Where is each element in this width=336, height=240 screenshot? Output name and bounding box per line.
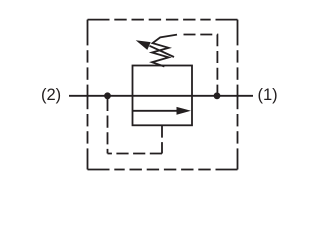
node: right junction dot [214, 92, 221, 99]
pilot line: spring cap to port (1) node (dashed) [184, 35, 218, 93]
flow path arrow inside valve [133, 107, 191, 115]
valve body square [133, 66, 193, 126]
drain pilot line: riser to port (2) node (dashed) [107, 99, 109, 154]
spring (adjustable) above valve body [152, 35, 177, 67]
drain pilot line: valve bottom stub (dashed) [161, 125, 163, 153]
drain pilot line: bottom horizontal run (dashed) [108, 153, 163, 155]
svg-text:(2): (2) [41, 86, 61, 104]
svg-text:(1): (1) [258, 86, 278, 104]
wire: main line from port (2) to port (1) [69, 95, 253, 97]
adjustment arrow through spring [136, 40, 174, 57]
node: left junction dot [104, 92, 111, 99]
cartridge envelope (outer dashed boundary) [88, 20, 238, 170]
